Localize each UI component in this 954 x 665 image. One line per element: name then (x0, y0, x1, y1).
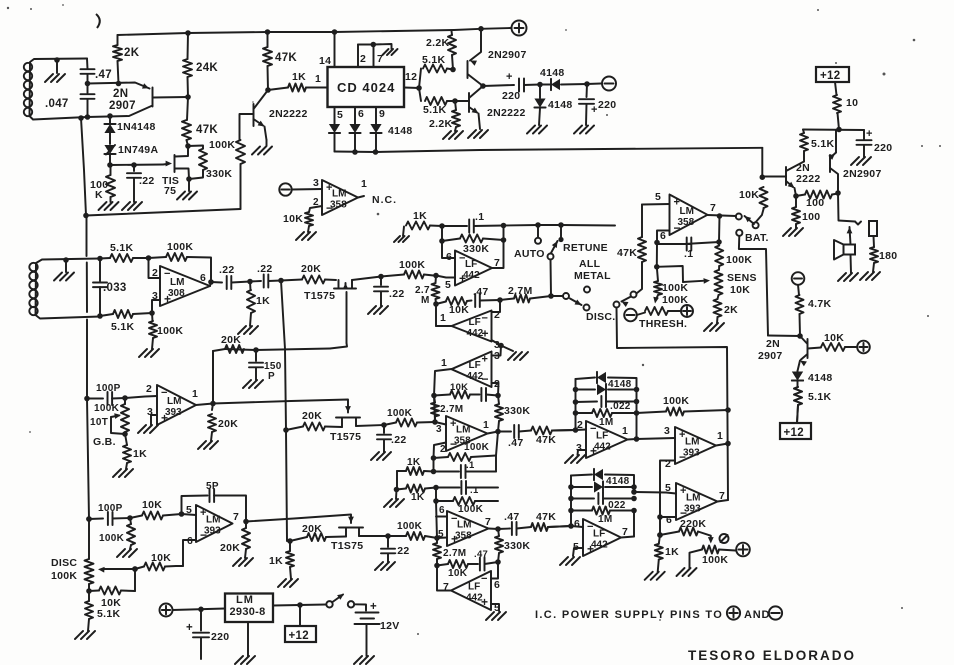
svg-text:20K: 20K (221, 334, 241, 346)
resistor 2.2K (lower) (429, 101, 460, 131)
svg-text:330K: 330K (463, 243, 489, 255)
svg-text:100K: 100K (51, 570, 77, 582)
wire pin5 358 (642, 191, 670, 205)
resistor 10K (audio) (808, 332, 858, 351)
resistor 1K (interstage) (247, 282, 270, 327)
supply +12 (top) (816, 67, 849, 82)
svg-text:442: 442 (467, 328, 484, 339)
resistor 1K (gb) (123, 434, 147, 469)
wire pin5 (436, 276, 455, 278)
mark slashed circle (720, 534, 729, 543)
ground .22 s/h3 (375, 562, 395, 570)
resistor 20K (to S/H) (281, 263, 336, 284)
ground 2K (704, 323, 724, 331)
svg-text:1: 1 (622, 425, 628, 437)
svg-text:47K: 47K (536, 511, 556, 523)
svg-text:47K: 47K (536, 434, 556, 446)
svg-text:12V: 12V (380, 620, 400, 632)
wire pin6 442d (491, 562, 498, 579)
svg-text:220: 220 (502, 90, 520, 102)
resistor 10K (bat) (739, 187, 768, 222)
resistor 100K (out) (715, 242, 752, 270)
svg-text:10K: 10K (448, 568, 468, 579)
svg-text:1: 1 (315, 73, 321, 85)
wire to minus (587, 83, 601, 86)
svg-text:2: 2 (313, 197, 319, 208)
svg-text:6: 6 (666, 514, 672, 526)
wire s/h3 out (359, 533, 391, 539)
svg-text:100K: 100K (387, 408, 413, 419)
op-amp U3 LM308 (160, 266, 210, 306)
IC U1 CD4024 (328, 67, 405, 107)
svg-text:100K: 100K (458, 504, 484, 515)
svg-text:75: 75 (164, 185, 176, 197)
resistor 10K (disc wiper) (89, 587, 135, 610)
svg-text:5.1K: 5.1K (423, 104, 446, 116)
svg-text:G.B.: G.B. (93, 436, 116, 448)
resistor 10K (disc in) (130, 499, 184, 520)
transistor Q1 2N2907 (TX osc) (88, 83, 189, 118)
ground 20K (233, 558, 253, 566)
capacitor .22 (s/h3) (381, 536, 410, 562)
svg-text:5: 5 (655, 191, 661, 203)
wire 2.7M line (436, 286, 503, 316)
capacitor .1 (358 fb) (657, 216, 722, 260)
svg-text:2.2K: 2.2K (426, 37, 449, 49)
ground 100K disc (117, 549, 137, 557)
capacitor 220 (out) (483, 71, 524, 102)
svg-text:5.1K: 5.1K (111, 321, 134, 333)
node zener (107, 162, 113, 168)
svg-text:5: 5 (337, 109, 343, 121)
svg-text:RETUNE: RETUNE (563, 242, 608, 254)
svg-text:2N2222: 2N2222 (487, 107, 526, 119)
wire 47K to pin2 (552, 429, 576, 432)
svg-text:.22: .22 (391, 434, 407, 446)
svg-text:393: 393 (684, 504, 701, 515)
svg-text:LM: LM (686, 493, 700, 504)
node audio (797, 333, 803, 339)
node LM308 out (208, 279, 214, 285)
svg-text:5: 5 (445, 279, 451, 291)
svg-text:100K: 100K (157, 325, 183, 337)
svg-text:393: 393 (204, 526, 221, 537)
ground regulator (235, 656, 255, 664)
capacitor 220 (supply) (186, 609, 229, 659)
ground battery (354, 656, 374, 664)
svg-text:2K: 2K (724, 304, 738, 316)
capacitor 100p (gb) (87, 383, 128, 405)
op-amp U14 LM393C (665, 427, 723, 470)
resistor 2K (113, 35, 140, 86)
wire pin5 393d2 (666, 493, 676, 494)
capacitor .022 (blk1) (576, 396, 640, 412)
wire 393d2 out (718, 500, 729, 502)
resistor 5.1K (RX top) (100, 242, 151, 262)
wire pin6 bp2 (436, 505, 447, 517)
wire bp1 fb vert (496, 432, 498, 472)
ground coil L2 tap (54, 257, 74, 280)
resistor 220K (657, 518, 714, 544)
diode D8 4148 (792, 372, 833, 388)
transistor Q2 2N2222 (254, 90, 308, 146)
resistor 330K (fb) (442, 235, 504, 256)
svg-text:4148: 4148 (606, 476, 630, 487)
svg-text:1K: 1K (413, 210, 427, 222)
wire spine2 (281, 281, 287, 542)
op-amp U5 LM358B (660, 195, 716, 243)
svg-text:100: 100 (802, 211, 820, 223)
wire out 442d (437, 566, 451, 591)
svg-text:LM: LM (457, 520, 471, 531)
diode D13 4148 (pullup) (792, 372, 803, 381)
ground .22 s/h2 (371, 452, 391, 460)
resistor 100K (s/h2) (384, 408, 435, 427)
wire 442e out (628, 425, 676, 440)
ground disc (75, 631, 95, 639)
svg-text:10K: 10K (450, 382, 468, 393)
svg-text:+12: +12 (289, 630, 309, 642)
svg-text:5.1K: 5.1K (110, 242, 133, 254)
transistor Q7 2N2907 (828, 130, 881, 193)
svg-text:.047: .047 (45, 98, 69, 110)
svg-text:+: + (591, 104, 598, 116)
zener D2 1N749A (104, 144, 158, 165)
svg-text:442: 442 (466, 593, 483, 604)
resistor 100K (s/h3) (388, 521, 437, 540)
resistor 20K (s/h2) (283, 410, 342, 433)
node power out (480, 83, 486, 89)
resistor 100K (bp2 fb) (433, 497, 498, 515)
svg-text:2.2K: 2.2K (429, 118, 452, 130)
svg-text:1K: 1K (665, 546, 679, 558)
wire S/H out (352, 274, 404, 280)
diode D9 4148 (576, 372, 637, 439)
svg-text:393: 393 (683, 448, 700, 459)
resistor 2.2K (upper) (426, 31, 456, 70)
wire 442f out (621, 511, 634, 538)
svg-text:393: 393 (165, 407, 182, 418)
resistor 47K (thresh) (617, 205, 646, 294)
op-amp U2 LM358A (322, 178, 367, 215)
svg-text:100P: 100P (98, 503, 123, 514)
resistor 100K (RX fb) (149, 241, 212, 282)
capacitor .47 (bp2) (489, 511, 532, 535)
svg-text:2K: 2K (124, 47, 140, 59)
ground 220 driver (851, 157, 871, 165)
wire audio rail (768, 335, 800, 338)
FET Q10 TIS75 (S/H 2) (330, 406, 361, 443)
resistor 100K (cmp1) (637, 395, 729, 416)
svg-text:T1575: T1575 (330, 431, 361, 443)
svg-text:2907: 2907 (758, 350, 783, 362)
diode D1 1N4148 (104, 113, 155, 144)
svg-text:220: 220 (874, 142, 892, 154)
diode D12 4148 (571, 481, 637, 494)
svg-text:1K: 1K (133, 448, 147, 460)
resistor 1M (blk1) (576, 409, 640, 428)
node spine gb (84, 396, 90, 402)
svg-text:1M: 1M (598, 514, 613, 525)
wire pin14 (319, 29, 337, 67)
svg-text:100K: 100K (167, 241, 193, 253)
ground 1K cmp (645, 572, 665, 580)
capacitor 5p (fb) (182, 481, 247, 522)
supply +12 (audio) (780, 423, 811, 439)
svg-text:442: 442 (463, 270, 480, 281)
switch DISC pole1 (551, 293, 616, 323)
svg-text:+12: +12 (820, 70, 840, 82)
resistor 10 (833, 82, 858, 130)
svg-text:1: 1 (483, 419, 489, 431)
svg-text:LM: LM (685, 437, 699, 448)
svg-text:3: 3 (494, 350, 500, 362)
transistor Q8 2N2907 (audio) (758, 336, 808, 371)
svg-text:4148: 4148 (540, 67, 565, 79)
wire NC out (358, 194, 397, 206)
wire 150p node (225, 349, 330, 351)
wire (85, 74, 91, 86)
svg-text:.47: .47 (504, 511, 520, 523)
svg-text:.1: .1 (466, 460, 475, 471)
wire gate feed (110, 164, 163, 167)
svg-text:N.C.: N.C. (372, 194, 397, 206)
svg-text:100P: 100P (96, 383, 121, 394)
capacitor .22 (s/h2) (377, 425, 407, 452)
svg-text:.022: .022 (605, 500, 626, 511)
diode D11 4148 (571, 469, 634, 492)
svg-text:4148: 4148 (608, 379, 632, 390)
resistor 2.7M (fb1) (415, 276, 440, 307)
svg-text:330K: 330K (504, 405, 530, 417)
svg-text:10K: 10K (142, 499, 162, 511)
svg-text:LF: LF (468, 582, 480, 593)
svg-text:2: 2 (152, 267, 158, 279)
resistor 20K (s/h3) (287, 523, 346, 544)
capacitor 220 (driver) (857, 128, 893, 157)
wire pin6 393d (183, 540, 196, 566)
svg-text:6: 6 (446, 251, 452, 263)
FET Q9 TIS75 (S/H 1) (304, 280, 356, 349)
svg-text:5.1K: 5.1K (808, 391, 831, 403)
wire (524, 82, 543, 88)
wire blk2 left (568, 476, 574, 529)
resistor 5.1K (pullup) (794, 387, 802, 405)
wire pin6 442f (571, 526, 583, 527)
wire pin5 bp2 (437, 537, 447, 540)
svg-text:1: 1 (192, 388, 198, 400)
svg-text:4.7K: 4.7K (808, 298, 831, 310)
wire pin3 (152, 290, 160, 313)
resistor 2.7M (bp2) (433, 538, 466, 568)
svg-text:M: M (421, 295, 430, 306)
svg-text:5.1K: 5.1K (422, 54, 445, 66)
wire pin2 442c (492, 383, 501, 398)
wire pin5 393d (182, 514, 197, 515)
svg-text:.1: .1 (470, 485, 479, 496)
resistor 5.1K (disc) (85, 591, 120, 631)
wire pin5 442d (491, 604, 499, 611)
svg-text:2N2907: 2N2907 (488, 49, 527, 61)
svg-text:LF: LF (593, 529, 605, 540)
wire (292, 177, 322, 190)
ground 1K gb (113, 469, 133, 477)
terminal minus (NC amp) (279, 183, 291, 195)
svg-text:−: − (481, 573, 488, 585)
ground 2.2K (443, 131, 463, 139)
wire (86, 59, 89, 70)
wire 393c out (196, 401, 216, 407)
resistor 100 (v) (792, 196, 820, 228)
svg-text:100K: 100K (99, 533, 125, 544)
wire wiper (132, 566, 138, 591)
svg-text:BAT.: BAT. (745, 232, 769, 244)
svg-text:2N2222: 2N2222 (269, 108, 308, 120)
op-amp U7 LF442C (441, 350, 500, 390)
svg-text:LM: LM (236, 594, 254, 606)
resistor 47K (bp1) (531, 427, 576, 447)
svg-text:3: 3 (313, 177, 319, 189)
wire left spine (81, 118, 89, 519)
wire to S/H2 (213, 400, 348, 407)
svg-text:1: 1 (717, 430, 723, 442)
svg-text:THRESH.: THRESH. (639, 318, 687, 330)
svg-text:2907: 2907 (109, 100, 136, 112)
resistor 100K (osc bias) (90, 165, 115, 202)
svg-text:1: 1 (361, 178, 367, 190)
svg-text:358: 358 (330, 200, 347, 211)
svg-text:100K: 100K (662, 282, 688, 294)
svg-text:LM: LM (332, 189, 346, 200)
svg-text:3: 3 (436, 424, 442, 435)
svg-text:20K: 20K (302, 410, 322, 422)
op-amp U11 LM393A (147, 385, 198, 425)
svg-text:.47: .47 (95, 69, 112, 81)
resistor 100K (bp1 fb) (434, 442, 497, 461)
switch RETUNE toggle (548, 225, 608, 260)
FET Q11 TIS75 (S/H 3) (331, 517, 363, 552)
svg-text:ALL: ALL (579, 258, 601, 270)
svg-text:METAL: METAL (574, 270, 611, 282)
svg-text:47K: 47K (617, 247, 637, 259)
wire pin2 pin7 (358, 42, 392, 67)
resistor 100K (to gnd) (149, 313, 183, 349)
svg-text:2.7M: 2.7M (443, 548, 466, 559)
ground Q2 emitter (252, 147, 272, 155)
capacitor .033 (93, 256, 127, 319)
resistor 100K (Q2 base) (209, 114, 254, 209)
svg-text:2.7M: 2.7M (440, 404, 463, 415)
resistor 47K (divider in) (263, 29, 297, 93)
svg-text:20K: 20K (302, 523, 322, 535)
svg-text:.22: .22 (139, 175, 155, 187)
svg-text:DISC.: DISC. (586, 311, 616, 323)
wire 47K to pin6b (548, 526, 571, 527)
svg-text:1K: 1K (411, 492, 425, 503)
switch power (326, 594, 354, 608)
wire out (492, 223, 506, 268)
wire toggle down (548, 260, 554, 299)
wire pin3 393c (151, 415, 157, 425)
svg-text:.22: .22 (257, 263, 273, 275)
svg-text:1N749A: 1N749A (118, 144, 158, 156)
svg-text:4148: 4148 (388, 125, 413, 137)
ground 20K out (198, 441, 218, 449)
svg-text:.47: .47 (473, 286, 489, 298)
wire 358 out (708, 213, 737, 219)
svg-text:SENS: SENS (727, 272, 757, 284)
ground 442e (565, 455, 585, 463)
switch contact BAT (736, 230, 769, 244)
wire to +12 (797, 405, 798, 423)
wire 393c out (716, 444, 728, 446)
node 393d out (243, 519, 249, 525)
svg-text:1N4148: 1N4148 (117, 121, 156, 133)
capacitor .47 (81, 69, 112, 81)
wire DISC line (617, 308, 731, 501)
svg-text:100K: 100K (726, 254, 752, 266)
capacitor .022 (blk2) (571, 493, 637, 511)
svg-text:2N: 2N (113, 88, 128, 100)
svg-text:10K: 10K (283, 213, 303, 225)
svg-text:10K: 10K (449, 304, 469, 316)
svg-text:I.C. POWER SUPPLY PINS TO: I.C. POWER SUPPLY PINS TO (535, 609, 723, 621)
node Q7 collector (835, 190, 841, 196)
svg-text:.22: .22 (219, 264, 235, 276)
svg-text:330K: 330K (206, 168, 232, 180)
svg-text:+: + (506, 71, 513, 83)
svg-text:100: 100 (806, 197, 824, 209)
svg-text:20K: 20K (220, 542, 240, 554)
ground coil L1 tap (45, 57, 65, 82)
op-amp U12 LM393B (186, 504, 239, 547)
ground pot vol (677, 568, 697, 576)
ground 1K pair (384, 490, 404, 508)
ground 100 (783, 228, 803, 236)
diode D10 4148 (576, 384, 640, 395)
ground 10K NC (296, 232, 316, 240)
svg-text:K: K (95, 189, 103, 201)
svg-text:1K: 1K (269, 555, 283, 567)
wire pin6 393d2 (660, 516, 676, 518)
wire out 442c (434, 369, 452, 396)
svg-text:6: 6 (200, 272, 206, 284)
ground 1K (238, 326, 258, 334)
ground 100K (99, 202, 119, 210)
terminal plus supply (160, 604, 173, 617)
switch contact AUTO (514, 225, 545, 260)
pot SENS 10K (683, 270, 757, 296)
ground pins 2-7 (383, 49, 398, 55)
terminal plus TX (512, 21, 527, 36)
ground 100K RX (139, 349, 159, 357)
pot 100K (vol) (690, 546, 736, 569)
svg-text:2: 2 (146, 383, 152, 395)
resistor 1K (bp1 a) (397, 457, 434, 475)
svg-text:220K: 220K (680, 518, 706, 530)
wire pin6 (439, 238, 455, 258)
wire diode rail (335, 148, 763, 155)
svg-text:LF: LF (596, 431, 608, 442)
svg-text:.47: .47 (508, 437, 524, 449)
pot DISC 100K (51, 516, 135, 594)
resistor 5.1K (driver) (800, 130, 834, 162)
wire pin2 (149, 258, 161, 279)
transistor Q4 2N2907 (468, 29, 527, 86)
resistor 100K (disc) (99, 518, 135, 549)
resistor 24K (183, 30, 218, 100)
transistor Q6 2N2222 (762, 162, 820, 197)
